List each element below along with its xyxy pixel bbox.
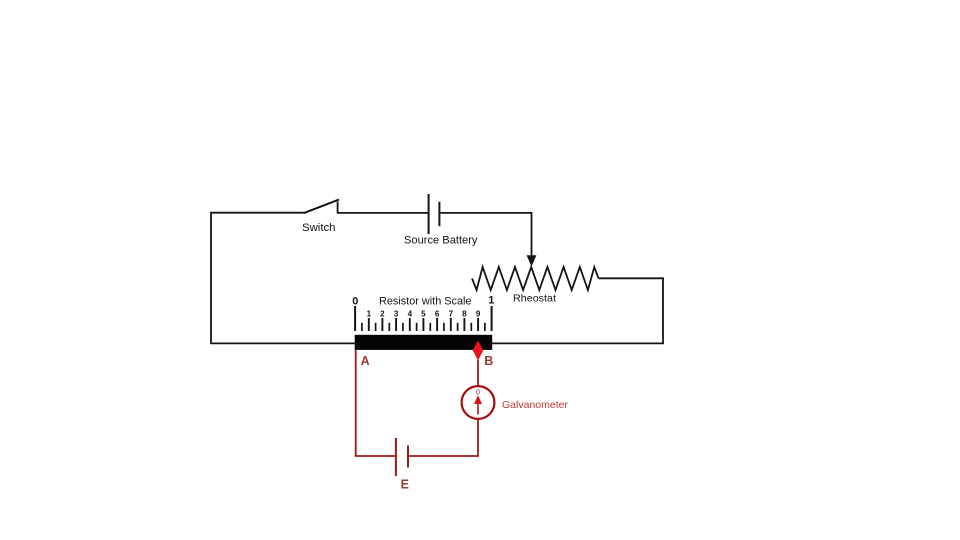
battery BT1 "Source Battery" (long plate) [428, 194, 430, 234]
jockey contact diamond at B [473, 340, 483, 360]
svg-text:2: 2 [380, 310, 385, 319]
scale long tick at 1 [491, 306, 493, 331]
scale digit labels 1-9 [367, 310, 481, 319]
svg-text:E: E [401, 478, 409, 492]
wire: right vertical down to rheostat wiper [531, 212, 533, 256]
wire: red left vertical from A [355, 350, 357, 456]
svg-text:A: A [361, 354, 370, 368]
scale long tick at 0 [354, 306, 356, 331]
wire: red bottom left to battery E [355, 455, 395, 457]
switch S1 (open blade) [304, 200, 340, 214]
battery BT1 "Source Battery" (short plate) [438, 202, 440, 226]
svg-text:Galvanometer: Galvanometer [502, 399, 568, 411]
svg-text:0: 0 [352, 296, 358, 308]
wire: red bottom right from battery E [409, 455, 478, 457]
svg-text:8: 8 [462, 310, 467, 319]
wire: right vertical of main loop [662, 277, 664, 343]
wire: left vertical of main loop [210, 213, 212, 344]
svg-text:4: 4 [408, 310, 413, 319]
svg-text:6: 6 [435, 310, 440, 319]
wire: rheostat right end horizontal [599, 277, 664, 279]
svg-text:1: 1 [488, 295, 494, 307]
svg-text:Resistor with Scale: Resistor with Scale [379, 296, 472, 308]
galvanometer G (circle) [462, 386, 495, 419]
rheostat R1 (zigzag) [472, 267, 599, 290]
svg-text:Source Battery: Source Battery [404, 235, 478, 247]
svg-text:5: 5 [421, 310, 426, 319]
svg-text:7: 7 [449, 310, 454, 319]
wire: switch to source battery [338, 212, 428, 214]
wire: red from diamond down to galvanometer top [477, 360, 479, 387]
slide-wire resistor body (black bar) [355, 335, 493, 350]
svg-text:B: B [484, 354, 493, 368]
battery E (short plate) [407, 446, 409, 468]
battery E (long plate) [395, 438, 397, 476]
wire: top-left horizontal to switch [210, 212, 304, 214]
wire: bottom horizontal of main loop [210, 342, 664, 344]
wiper arrow onto rheostat [527, 255, 537, 266]
svg-text:Switch: Switch [302, 222, 336, 234]
scale short ticks (half tenths) [362, 323, 485, 331]
svg-text:9: 9 [476, 310, 481, 319]
svg-text:3: 3 [394, 310, 399, 319]
svg-text:1: 1 [367, 310, 372, 319]
wire: red right vertical up to galvanometer [477, 419, 479, 457]
svg-text:0: 0 [476, 389, 480, 396]
svg-text:Rheostat: Rheostat [513, 293, 556, 305]
wire: battery to top-right corner [440, 212, 531, 214]
galvanometer needle (arrow) [474, 395, 482, 414]
scale medium ticks (tenths) [369, 318, 478, 331]
